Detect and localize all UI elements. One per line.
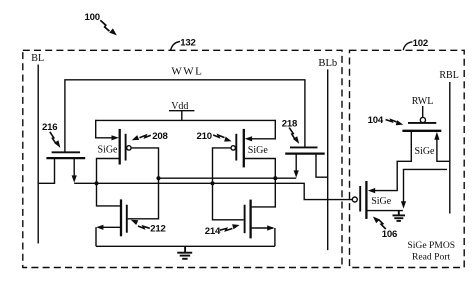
pmos U106 channel bar (365, 181, 367, 219)
pmos U208 drain wire to node Q (97, 159, 121, 206)
access nmos U216 drain wire to node Q (73, 158, 75, 176)
pmos U210 source wire from Vdd (251, 120, 275, 139)
nmos U214 source wire (251, 228, 275, 246)
junction dot node Qb at U210 drain (273, 176, 277, 180)
pmos U106 source arrow (368, 188, 375, 193)
pmos U104 drain wire to U106 source (371, 131, 412, 191)
svg-text:104: 104 (368, 115, 384, 126)
svg-text:RBL: RBL (439, 70, 458, 81)
label 102 with leader (403, 38, 428, 50)
access nmos U216 gate bar (52, 151, 80, 153)
junction dot node Q at U208 drain (94, 181, 98, 185)
label 208 with pointer (132, 131, 169, 142)
svg-text:BL: BL (31, 53, 44, 64)
pmos U208 source wire from Vdd (96, 120, 113, 138)
caption SiGe PMOS Read Port (407, 240, 455, 263)
node Q wire to read port gate (74, 183, 352, 199)
junction dot node Q at U210 gate (210, 181, 214, 185)
access nmos U218 drain arrow (294, 170, 299, 177)
svg-text:216: 216 (42, 122, 57, 133)
pmos U104 channel bar (402, 130, 441, 132)
write word line WWL wire (65, 80, 305, 152)
svg-text:Read Port: Read Port (412, 251, 450, 262)
pmos U210 gate bubble (231, 146, 235, 150)
svg-text:210: 210 (197, 131, 212, 142)
access nmos U216 drain arrow (72, 175, 77, 182)
pmos U208 channel bar (119, 129, 121, 165)
access nmos U218 gate bar (290, 146, 318, 148)
svg-text:132: 132 (180, 38, 195, 49)
bit line BL wire (37, 65, 39, 244)
label 214 with pointer (205, 224, 240, 237)
read word line RWL stem (422, 106, 424, 117)
pmos U104 source arrow (434, 132, 439, 140)
svg-text:SiGe: SiGe (415, 146, 436, 157)
pmos U208 gate bar (125, 134, 127, 161)
pmos U104 source wire to RBL (437, 135, 450, 162)
svg-text:100: 100 (85, 12, 100, 23)
label 210 with pointer (197, 131, 232, 142)
junction dot node Qb at U208 gate (156, 176, 160, 180)
svg-text:SiGe: SiGe (371, 196, 392, 207)
ground rail wire (96, 245, 275, 247)
access nmos U216 channel bar (46, 157, 85, 159)
svg-text:WWL: WWL (171, 66, 203, 78)
nmos U212 channel bar (120, 199, 122, 236)
svg-text:SiGe: SiGe (98, 145, 119, 156)
cell boundary box 132 (dashed) (23, 50, 342, 267)
nmos U212 gate bar (126, 205, 128, 233)
ground symbol cell (177, 246, 192, 258)
access nmos U216 source wire to BL (38, 158, 54, 183)
svg-text:SiGe: SiGe (248, 145, 269, 156)
access nmos U218 drain wire to node Qb (295, 154, 297, 172)
label 132 with leader (171, 38, 196, 51)
access nmos U218 channel bar (285, 152, 325, 154)
bit line BLb wire (327, 69, 329, 250)
read bit line RBL wire (449, 82, 451, 214)
label 218 with pointer (282, 118, 300, 143)
svg-text:212: 212 (150, 224, 165, 235)
pmos U210 gate bar (235, 134, 237, 161)
nmos U214 gate bar (244, 205, 246, 234)
Vdd rail wire (96, 119, 276, 121)
svg-text:RWL: RWL (412, 96, 434, 107)
Vdd supply tick (169, 111, 194, 121)
label 216 with pointer (42, 122, 60, 148)
label 106 with pointer (373, 217, 397, 241)
node Qb wire (159, 177, 297, 179)
nmos U212 source wire (96, 227, 121, 246)
pmos U106 gate bar (359, 186, 361, 212)
read port boundary box 102 (dashed) (350, 50, 465, 267)
pmos U106 drain wire (366, 210, 403, 212)
nmos U212 source arrow (96, 225, 103, 230)
pmos U104 gate bubble (420, 117, 425, 122)
nmos U214 channel bar (249, 200, 251, 239)
pmos U208 gate bubble (127, 146, 131, 150)
label 212 with pointer (131, 220, 166, 235)
pmos U106 gate bubble (352, 197, 357, 202)
svg-text:BLb: BLb (318, 58, 337, 69)
pmos U104 gate bar (408, 122, 436, 124)
pmos U208 source arrow (112, 135, 119, 140)
node Qb gate wire of U208/U212 (128, 148, 159, 219)
pmos U210 source arrow (245, 136, 252, 141)
label 104 with pointer (368, 115, 404, 126)
current arrow head (401, 201, 406, 208)
ground symbol read port (393, 211, 406, 221)
RBL branch wire with current arrow (404, 169, 448, 204)
node Q gate wire of U210/U214 (213, 148, 244, 220)
svg-text:106: 106 (382, 229, 397, 240)
access nmos U218 source wire to BLb (316, 154, 328, 178)
label 100 (85, 12, 117, 35)
svg-text:214: 214 (205, 226, 221, 237)
pmos U210 drain wire to node Qb (244, 159, 275, 207)
pmos U210 channel bar (243, 129, 245, 168)
svg-text:208: 208 (152, 131, 168, 142)
nmos U214 source arrow (267, 225, 274, 230)
svg-text:SiGe PMOS: SiGe PMOS (407, 240, 455, 251)
svg-text:102: 102 (413, 38, 428, 49)
